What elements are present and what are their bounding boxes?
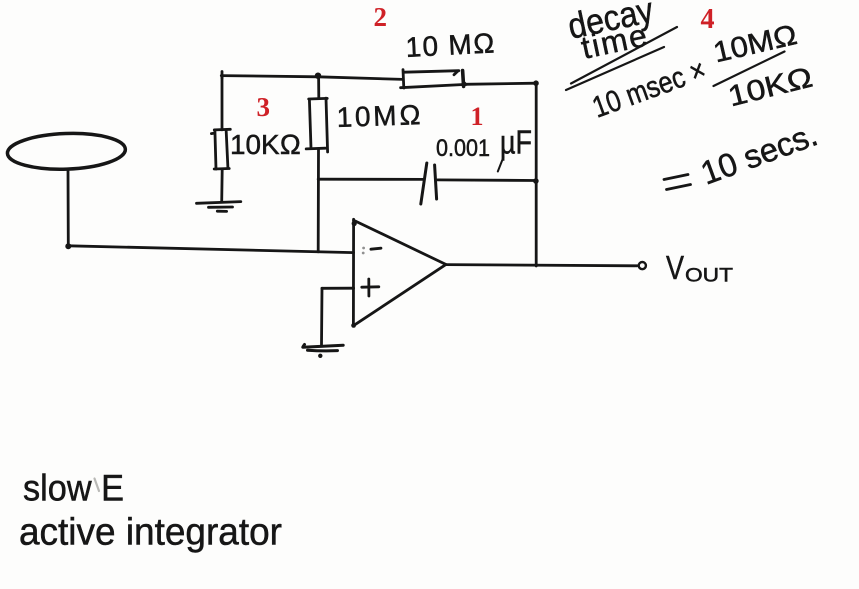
svg-text:4: 4 bbox=[701, 4, 715, 35]
svg-text:10MΩ: 10MΩ bbox=[336, 99, 421, 133]
svg-text:3: 3 bbox=[257, 92, 271, 122]
svg-text:slow E: slow E bbox=[23, 468, 124, 509]
svg-text:OUT: OUT bbox=[685, 266, 733, 287]
svg-text:µF: µF bbox=[500, 124, 532, 161]
svg-text:0.001: 0.001 bbox=[436, 135, 490, 162]
svg-text:1: 1 bbox=[471, 102, 484, 131]
svg-text:active integrator: active integrator bbox=[19, 512, 282, 554]
svg-text:10 MΩ: 10 MΩ bbox=[405, 27, 496, 63]
svg-text:V: V bbox=[666, 249, 684, 286]
svg-text:2: 2 bbox=[374, 2, 388, 32]
svg-text:10KΩ: 10KΩ bbox=[230, 129, 301, 160]
